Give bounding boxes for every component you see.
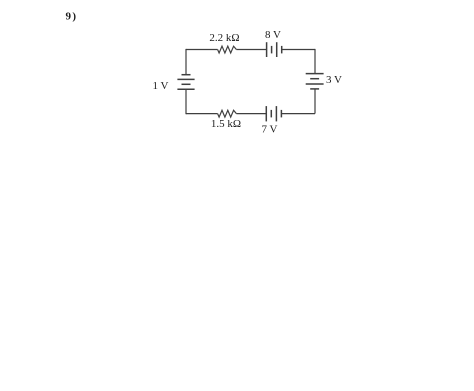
resistor 2.2 kOhm bbox=[218, 46, 237, 53]
svg-text:3 V: 3 V bbox=[326, 74, 342, 86]
wire right-lower segment (3V battery to bottom-right corner) bbox=[314, 89, 316, 114]
svg-text:2.2 kΩ: 2.2 kΩ bbox=[209, 32, 239, 44]
svg-text:9): 9) bbox=[66, 10, 78, 22]
wire left-upper segment (1V battery to top-left corner) bbox=[185, 49, 187, 75]
battery B3 7 V bbox=[266, 106, 281, 121]
battery B2 3 V bbox=[306, 74, 324, 89]
resistor 1.5 kOhm bbox=[218, 110, 237, 117]
wire top-left segment (top-left corner to resistor) bbox=[186, 49, 218, 51]
wire bottom-left segment (resistor to bottom-left corner) bbox=[186, 113, 218, 115]
wire left-lower segment (bottom-left corner to 1V battery) bbox=[185, 89, 187, 114]
svg-text:1 V: 1 V bbox=[153, 80, 169, 92]
wire top-right segment (8V battery to top-right corner) bbox=[282, 49, 315, 51]
svg-text:8 V: 8 V bbox=[265, 29, 281, 41]
wire top-middle segment (resistor to 8V battery) bbox=[236, 49, 266, 51]
battery B1 8 V bbox=[267, 42, 282, 57]
wire bottom-right segment (bottom-right corner to 7V battery) bbox=[282, 113, 315, 115]
svg-text:7 V: 7 V bbox=[262, 124, 278, 136]
battery B4 1 V bbox=[177, 75, 194, 90]
wire bottom-middle segment (7V battery to resistor) bbox=[236, 113, 266, 115]
svg-text:1.5 kΩ: 1.5 kΩ bbox=[211, 118, 241, 130]
wire right-upper segment (top-right corner to 3V battery) bbox=[314, 49, 316, 74]
